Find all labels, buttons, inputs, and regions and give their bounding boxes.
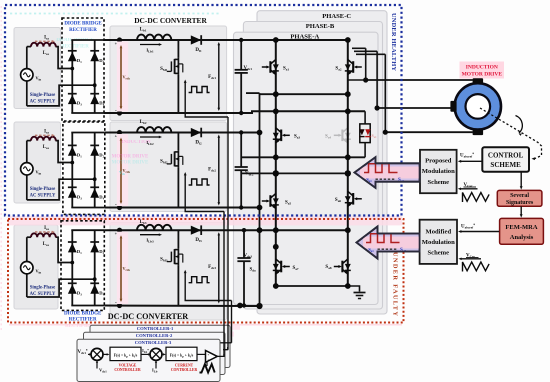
bypass diode box faulty switch xyxy=(360,124,370,143)
IGBT S_a7 xyxy=(273,259,290,275)
svg-text:Sa1: Sa1 xyxy=(283,67,289,72)
ground symbol xyxy=(348,286,360,292)
pulse in arrow faulty xyxy=(366,234,400,243)
svg-text:MOTOR DRIVE: MOTOR DRIVE xyxy=(112,155,149,160)
svg-text:ILb1: ILb1 xyxy=(146,48,154,54)
diode bridge rectifier box row 2 xyxy=(63,122,105,214)
svg-text:Analysis: Analysis xyxy=(510,234,534,241)
inductor L_b1 row 1 xyxy=(137,35,171,40)
rotation dashed feedback line xyxy=(480,108,542,159)
arrow control to signatures xyxy=(520,172,522,188)
svg-text:Lsa: Lsa xyxy=(43,51,49,56)
svg-text:SCHEME: SCHEME xyxy=(490,161,521,169)
MOSFET S_M1 row 1 xyxy=(177,40,179,58)
wire AC loop row 2 xyxy=(26,141,28,163)
svg-text:DIODE BRIDGE: DIODE BRIDGE xyxy=(64,311,102,316)
svg-text:CONTROLLER-2: CONTROLLER-2 xyxy=(136,333,173,338)
comparator C3 xyxy=(206,351,218,363)
left leg xyxy=(275,40,277,286)
svg-text:Single-Phase: Single-Phase xyxy=(30,93,56,98)
svg-text:Vdc1: Vdc1 xyxy=(244,66,253,71)
svg-text:MOTOR DRIVE: MOTOR DRIVE xyxy=(112,161,149,166)
bridge rails row 2 xyxy=(71,132,105,134)
svg-text:AC SUPPLY: AC SUPPLY xyxy=(30,99,56,104)
svg-text:Sa2: Sa2 xyxy=(335,67,341,72)
svg-text:Modulation: Modulation xyxy=(422,239,455,246)
IGBT S_a4 faulty faded xyxy=(334,128,351,144)
svg-text:SM3: SM3 xyxy=(160,257,168,262)
pink band row 2 xyxy=(117,134,128,206)
svg-text:Sa6: Sa6 xyxy=(335,198,341,203)
svg-text:Vin: Vin xyxy=(36,268,42,274)
svg-text:D2: D2 xyxy=(99,152,104,158)
svg-text:AC SUPPLY: AC SUPPLY xyxy=(30,193,56,198)
diode D3 row 1 xyxy=(68,95,77,104)
svg-text:Lb2: Lb2 xyxy=(140,119,147,125)
svg-text:DIODE BRIDGE: DIODE BRIDGE xyxy=(64,22,102,27)
arrow signatures to FEM xyxy=(520,206,522,215)
capacitor V_dc2 row 2 xyxy=(240,133,242,168)
svg-text:AC SUPPLY: AC SUPPLY xyxy=(30,292,56,297)
svg-text:ILb: ILb xyxy=(152,368,158,374)
pulse glyph row 2 xyxy=(189,179,210,185)
bridge wires row 1 xyxy=(71,40,73,113)
svg-text:Uabcref*: Uabcref* xyxy=(460,152,474,158)
arrow block1 to sum2 xyxy=(141,353,149,355)
comparator output wires behind xyxy=(220,342,232,344)
tap y173 xyxy=(241,172,348,174)
motor line 3 xyxy=(385,131,473,133)
IGBT S_a5 xyxy=(262,193,279,209)
svg-text:Lsa: Lsa xyxy=(43,242,49,247)
panel PHASE-A xyxy=(234,32,379,304)
svg-text:SM2: SM2 xyxy=(160,160,168,165)
svg-text:Isa: Isa xyxy=(44,226,49,231)
svg-text:F(s) = kp + ki/s: F(s) = kp + ki/s xyxy=(114,353,138,358)
induction motor xyxy=(455,83,501,129)
svg-text:CONTROLLER-3: CONTROLLER-3 xyxy=(135,340,172,345)
DC bus rails row 3 xyxy=(104,229,347,231)
panel DC-DC converter 2 xyxy=(110,122,227,212)
svg-text:PHASE-C: PHASE-C xyxy=(322,13,351,20)
svg-text:Fdc1: Fdc1 xyxy=(208,75,216,80)
arrow sum2 to block2 xyxy=(161,353,164,355)
pink band row 3 xyxy=(117,232,128,304)
box modified modulation scheme xyxy=(420,220,457,264)
motor line 2 xyxy=(377,107,451,109)
diode D2 row 3 xyxy=(90,243,99,252)
IGBT S_a3 xyxy=(273,128,290,144)
svg-text:PHASE-B: PHASE-B xyxy=(306,23,335,30)
diode D2 row 2 xyxy=(90,146,99,155)
box control scheme xyxy=(482,147,529,172)
IGBT S_a1 xyxy=(262,59,279,75)
svg-text:Vth: Vth xyxy=(119,170,125,176)
svg-text:-: - xyxy=(115,300,117,306)
V_rth arrow row 3 xyxy=(120,237,122,301)
svg-text:Df3: Df3 xyxy=(195,238,202,243)
svg-text:D4: D4 xyxy=(99,101,104,107)
F_dc1 arrow row 1 xyxy=(218,44,220,110)
sawtooth carrier top xyxy=(463,193,490,203)
V_rth arrow row 1 xyxy=(120,47,122,109)
svg-text:-: - xyxy=(115,202,117,208)
pulse glyph row 1 xyxy=(189,87,210,93)
arrow V_Car to modified xyxy=(460,258,481,260)
svg-text:Lsa: Lsa xyxy=(43,145,49,150)
motor terminal left xyxy=(450,101,456,112)
inductor L_sa row 1 xyxy=(31,43,56,47)
wire AC loop row 3 xyxy=(26,237,28,261)
right leg xyxy=(347,40,349,286)
svg-text:FEM-MRA: FEM-MRA xyxy=(505,224,537,231)
svg-text:INDUCTION: INDUCTION xyxy=(121,140,151,145)
svg-text:Vrth: Vrth xyxy=(123,75,131,81)
motor line 1 xyxy=(366,79,473,81)
current arrow I_Lb2 row 2 xyxy=(140,136,159,138)
svg-text:SM1: SM1 xyxy=(160,67,168,72)
svg-text:Single-Phase: Single-Phase xyxy=(30,187,56,192)
svg-text:Sa5: Sa5 xyxy=(285,201,291,206)
summing junction 2 xyxy=(150,348,162,360)
svg-text:Modulation: Modulation xyxy=(422,168,455,175)
svg-text:Sa7: Sa7 xyxy=(293,266,299,271)
pulse glyph row 3 xyxy=(189,277,210,283)
svg-text:Scheme: Scheme xyxy=(427,179,449,186)
box FEM-MRA analysis xyxy=(500,218,544,244)
svg-text:Lb1: Lb1 xyxy=(140,27,147,33)
svg-text:Df2: Df2 xyxy=(195,141,202,146)
modulation arrow faulty xyxy=(357,227,420,259)
svg-text:D1: D1 xyxy=(77,249,82,255)
box CONTROLLER-2 xyxy=(84,332,226,374)
V_rth arrow row 2 xyxy=(120,139,122,203)
svg-text:INDUCTION: INDUCTION xyxy=(466,65,498,71)
panel PHASE-B xyxy=(243,22,382,310)
bypass diode red xyxy=(365,129,370,135)
svg-text:RECTIFIER: RECTIFIER xyxy=(61,45,89,50)
arrow FEM to modified xyxy=(460,231,499,233)
svg-text:CURRENT: CURRENT xyxy=(175,364,194,368)
panel single-phase AC supply 2 xyxy=(14,122,61,203)
diode D1 row 2 xyxy=(68,146,77,155)
bus vertical xyxy=(259,93,261,306)
feedback I_Lb xyxy=(155,362,157,369)
DC bus rails row 1 xyxy=(104,39,348,41)
svg-text:DC-DC CONVERTER: DC-DC CONVERTER xyxy=(108,312,189,321)
svg-text:CONTROLLER: CONTROLLER xyxy=(171,368,198,372)
pulse in arrow healthy xyxy=(364,164,398,173)
box CONTROLLER-1 xyxy=(90,325,230,367)
pink band row 1 xyxy=(117,42,128,112)
inductor L_b2 row 2 xyxy=(137,127,171,132)
svg-text:Vdc1: Vdc1 xyxy=(99,368,107,374)
phase output wires xyxy=(348,79,366,81)
IGBT S_a6 xyxy=(345,191,362,207)
F_dc3 arrow row 3 xyxy=(218,234,220,302)
comparator outputs xyxy=(217,354,224,356)
panel PHASE-C xyxy=(257,11,387,314)
IGBT S_a2 xyxy=(345,59,362,75)
pink ghost strips controller titles xyxy=(118,325,240,330)
svg-text:Isa: Isa xyxy=(44,36,49,41)
panel DC-DC converter 3 xyxy=(110,223,227,321)
DC bus rails row 2 xyxy=(105,132,260,134)
feedback Vdc1 xyxy=(96,362,98,369)
svg-text:-: - xyxy=(115,108,117,114)
diode D4 row 1 xyxy=(90,95,99,104)
arrow V_Car to proposed xyxy=(460,188,478,190)
gate bus wires xyxy=(223,212,225,357)
svg-text:Several: Several xyxy=(510,193,529,199)
healthy region border blue dotted xyxy=(5,5,402,216)
panel single-phase AC supply 1 xyxy=(14,28,61,109)
current arrow I_Lb1 row 1 xyxy=(140,44,159,46)
current arrow I_sa row 1 xyxy=(35,40,52,42)
diode D3 row 2 xyxy=(68,188,77,197)
box proposed modulation scheme xyxy=(420,150,457,193)
label INDUCTION MOTOR DRIVE bg xyxy=(460,62,505,79)
svg-text:D3: D3 xyxy=(77,290,82,296)
svg-text:UNDER FAULTY: UNDER FAULTY xyxy=(392,252,399,316)
svg-text:D3: D3 xyxy=(77,194,82,200)
arrow sum1 to block1 xyxy=(102,353,107,355)
diode D_f1 row 1 xyxy=(191,35,201,44)
svg-text:Vrth: Vrth xyxy=(123,266,131,272)
gate wire row 1 xyxy=(185,81,228,117)
svg-text:D1: D1 xyxy=(77,152,82,158)
wires into comparator xyxy=(197,353,206,355)
ghost artifact magenta left edge xyxy=(0,6,2,330)
bypass diode dark xyxy=(359,129,364,135)
panel DC-DC converter 1 xyxy=(110,26,227,121)
arrow into sum1 xyxy=(88,353,91,355)
svg-text:Sda: Sda xyxy=(250,268,257,273)
rail y157 xyxy=(241,156,365,158)
diode D_f3 row 3 xyxy=(191,226,201,235)
svg-text:Fdc2: Fdc2 xyxy=(208,168,216,173)
diode D3 row 3 xyxy=(68,284,77,293)
box several signatures xyxy=(497,190,542,206)
svg-text:D4: D4 xyxy=(99,194,104,200)
svg-text:D2: D2 xyxy=(99,58,104,64)
diode D2 row 1 xyxy=(90,52,99,61)
svg-text:D1: D1 xyxy=(77,58,82,64)
panel single-phase AC supply 3 xyxy=(14,225,58,309)
inductor L_b3 row 3 xyxy=(137,225,171,230)
bridge wires row 3 xyxy=(71,230,73,305)
summing junction 1 xyxy=(91,348,103,360)
current arrow I_Lb3 row 3 xyxy=(140,234,159,236)
svg-text:UNDER HEALTHY: UNDER HEALTHY xyxy=(390,13,397,71)
pink band between borders xyxy=(8,216,402,225)
bridge wires row 2 xyxy=(71,133,73,208)
svg-text:D4: D4 xyxy=(99,290,104,296)
rotation arc xyxy=(516,116,523,134)
diode D1 row 3 xyxy=(68,243,77,252)
AC source row 1 xyxy=(21,69,33,81)
inductor L_sa row 2 xyxy=(31,137,56,141)
svg-text:Sa8: Sa8 xyxy=(325,265,331,270)
gate wire row 3 xyxy=(185,271,231,300)
diode D1 row 1 xyxy=(68,52,77,61)
diode D4 row 2 xyxy=(90,188,99,197)
svg-text:Df1: Df1 xyxy=(195,48,202,53)
motor terminal bottom xyxy=(473,130,484,135)
svg-text:Modified: Modified xyxy=(425,228,451,235)
svg-text:Vin: Vin xyxy=(36,169,42,175)
gate wire row 2 xyxy=(185,174,224,212)
svg-text:Vin: Vin xyxy=(36,75,42,81)
svg-text:CONTROL: CONTROL xyxy=(488,152,524,160)
svg-text:Sa4: Sa4 xyxy=(325,135,331,140)
ghost artifact cyan line xyxy=(10,13,220,15)
svg-text:ILb3: ILb3 xyxy=(146,238,154,244)
sawtooth carrier bottom xyxy=(463,262,490,272)
arrow control to proposed xyxy=(460,160,482,162)
wire AC loop row 1 xyxy=(26,47,28,69)
motor terminal top xyxy=(473,78,484,83)
PI block current xyxy=(166,347,197,360)
svg-text:Uabcref*: Uabcref* xyxy=(461,223,475,229)
sawtooth M glyph xyxy=(200,364,215,372)
diode D4 row 3 xyxy=(90,284,99,293)
inductor L_sa row 3 xyxy=(31,233,56,237)
svg-text:Scheme: Scheme xyxy=(427,249,449,256)
MOSFET S_M2 row 2 xyxy=(177,133,179,151)
svg-text:Sa3: Sa3 xyxy=(294,135,300,140)
svg-text:CONTROLLER-1: CONTROLLER-1 xyxy=(137,326,174,331)
svg-text:VOLTAGE: VOLTAGE xyxy=(119,364,137,368)
node dots xyxy=(273,37,279,43)
current arrow I_sa row 2 xyxy=(35,134,52,136)
svg-text:CONTROLLER: CONTROLLER xyxy=(114,368,141,372)
diode bridge rectifier box row 3 xyxy=(61,221,104,311)
svg-text:Proposed: Proposed xyxy=(425,157,452,164)
box CONTROLLER-3 xyxy=(77,339,220,381)
svg-text:D2: D2 xyxy=(99,249,104,255)
svg-text:Vdc3: Vdc3 xyxy=(244,254,253,259)
diode bridge rectifier box row 1 xyxy=(62,18,104,121)
svg-text:DC-DC CONVERTER: DC-DC CONVERTER xyxy=(134,16,207,25)
svg-text:Signatures: Signatures xyxy=(506,200,534,206)
modulation arrow healthy xyxy=(355,157,420,188)
AC source row 2 xyxy=(21,163,33,175)
svg-text:RECTIFIER: RECTIFIER xyxy=(69,28,97,33)
bridge rails row 3 xyxy=(71,229,104,231)
PI block voltage xyxy=(110,347,141,360)
faulty region border red dotted xyxy=(8,219,404,323)
svg-text:Isa: Isa xyxy=(44,130,49,135)
F_dc2 arrow row 2 xyxy=(218,136,220,204)
capacitor V_dc1 row 1 xyxy=(240,40,242,70)
svg-text:MOTOR DRIVE: MOTOR DRIVE xyxy=(462,72,503,78)
AC source row 3 xyxy=(21,262,33,274)
svg-text:D3: D3 xyxy=(77,101,82,107)
mid rail y94 xyxy=(260,93,348,95)
MOSFET S_M3 row 3 xyxy=(177,230,179,248)
bridge rails row 1 xyxy=(71,39,104,41)
svg-text:Fdc3: Fdc3 xyxy=(208,265,216,270)
capacitor V_dc3 row 3 xyxy=(243,230,245,258)
current arrow I_sa row 3 xyxy=(35,231,52,233)
svg-text:Single-Phase: Single-Phase xyxy=(30,286,56,291)
svg-text:F(s) = kp + ki/s: F(s) = kp + ki/s xyxy=(170,353,194,358)
rail y286 xyxy=(276,285,348,287)
IGBT S_a8 xyxy=(334,259,351,275)
ghost pink under red border xyxy=(9,324,402,326)
diode D_f2 row 2 xyxy=(191,128,201,137)
